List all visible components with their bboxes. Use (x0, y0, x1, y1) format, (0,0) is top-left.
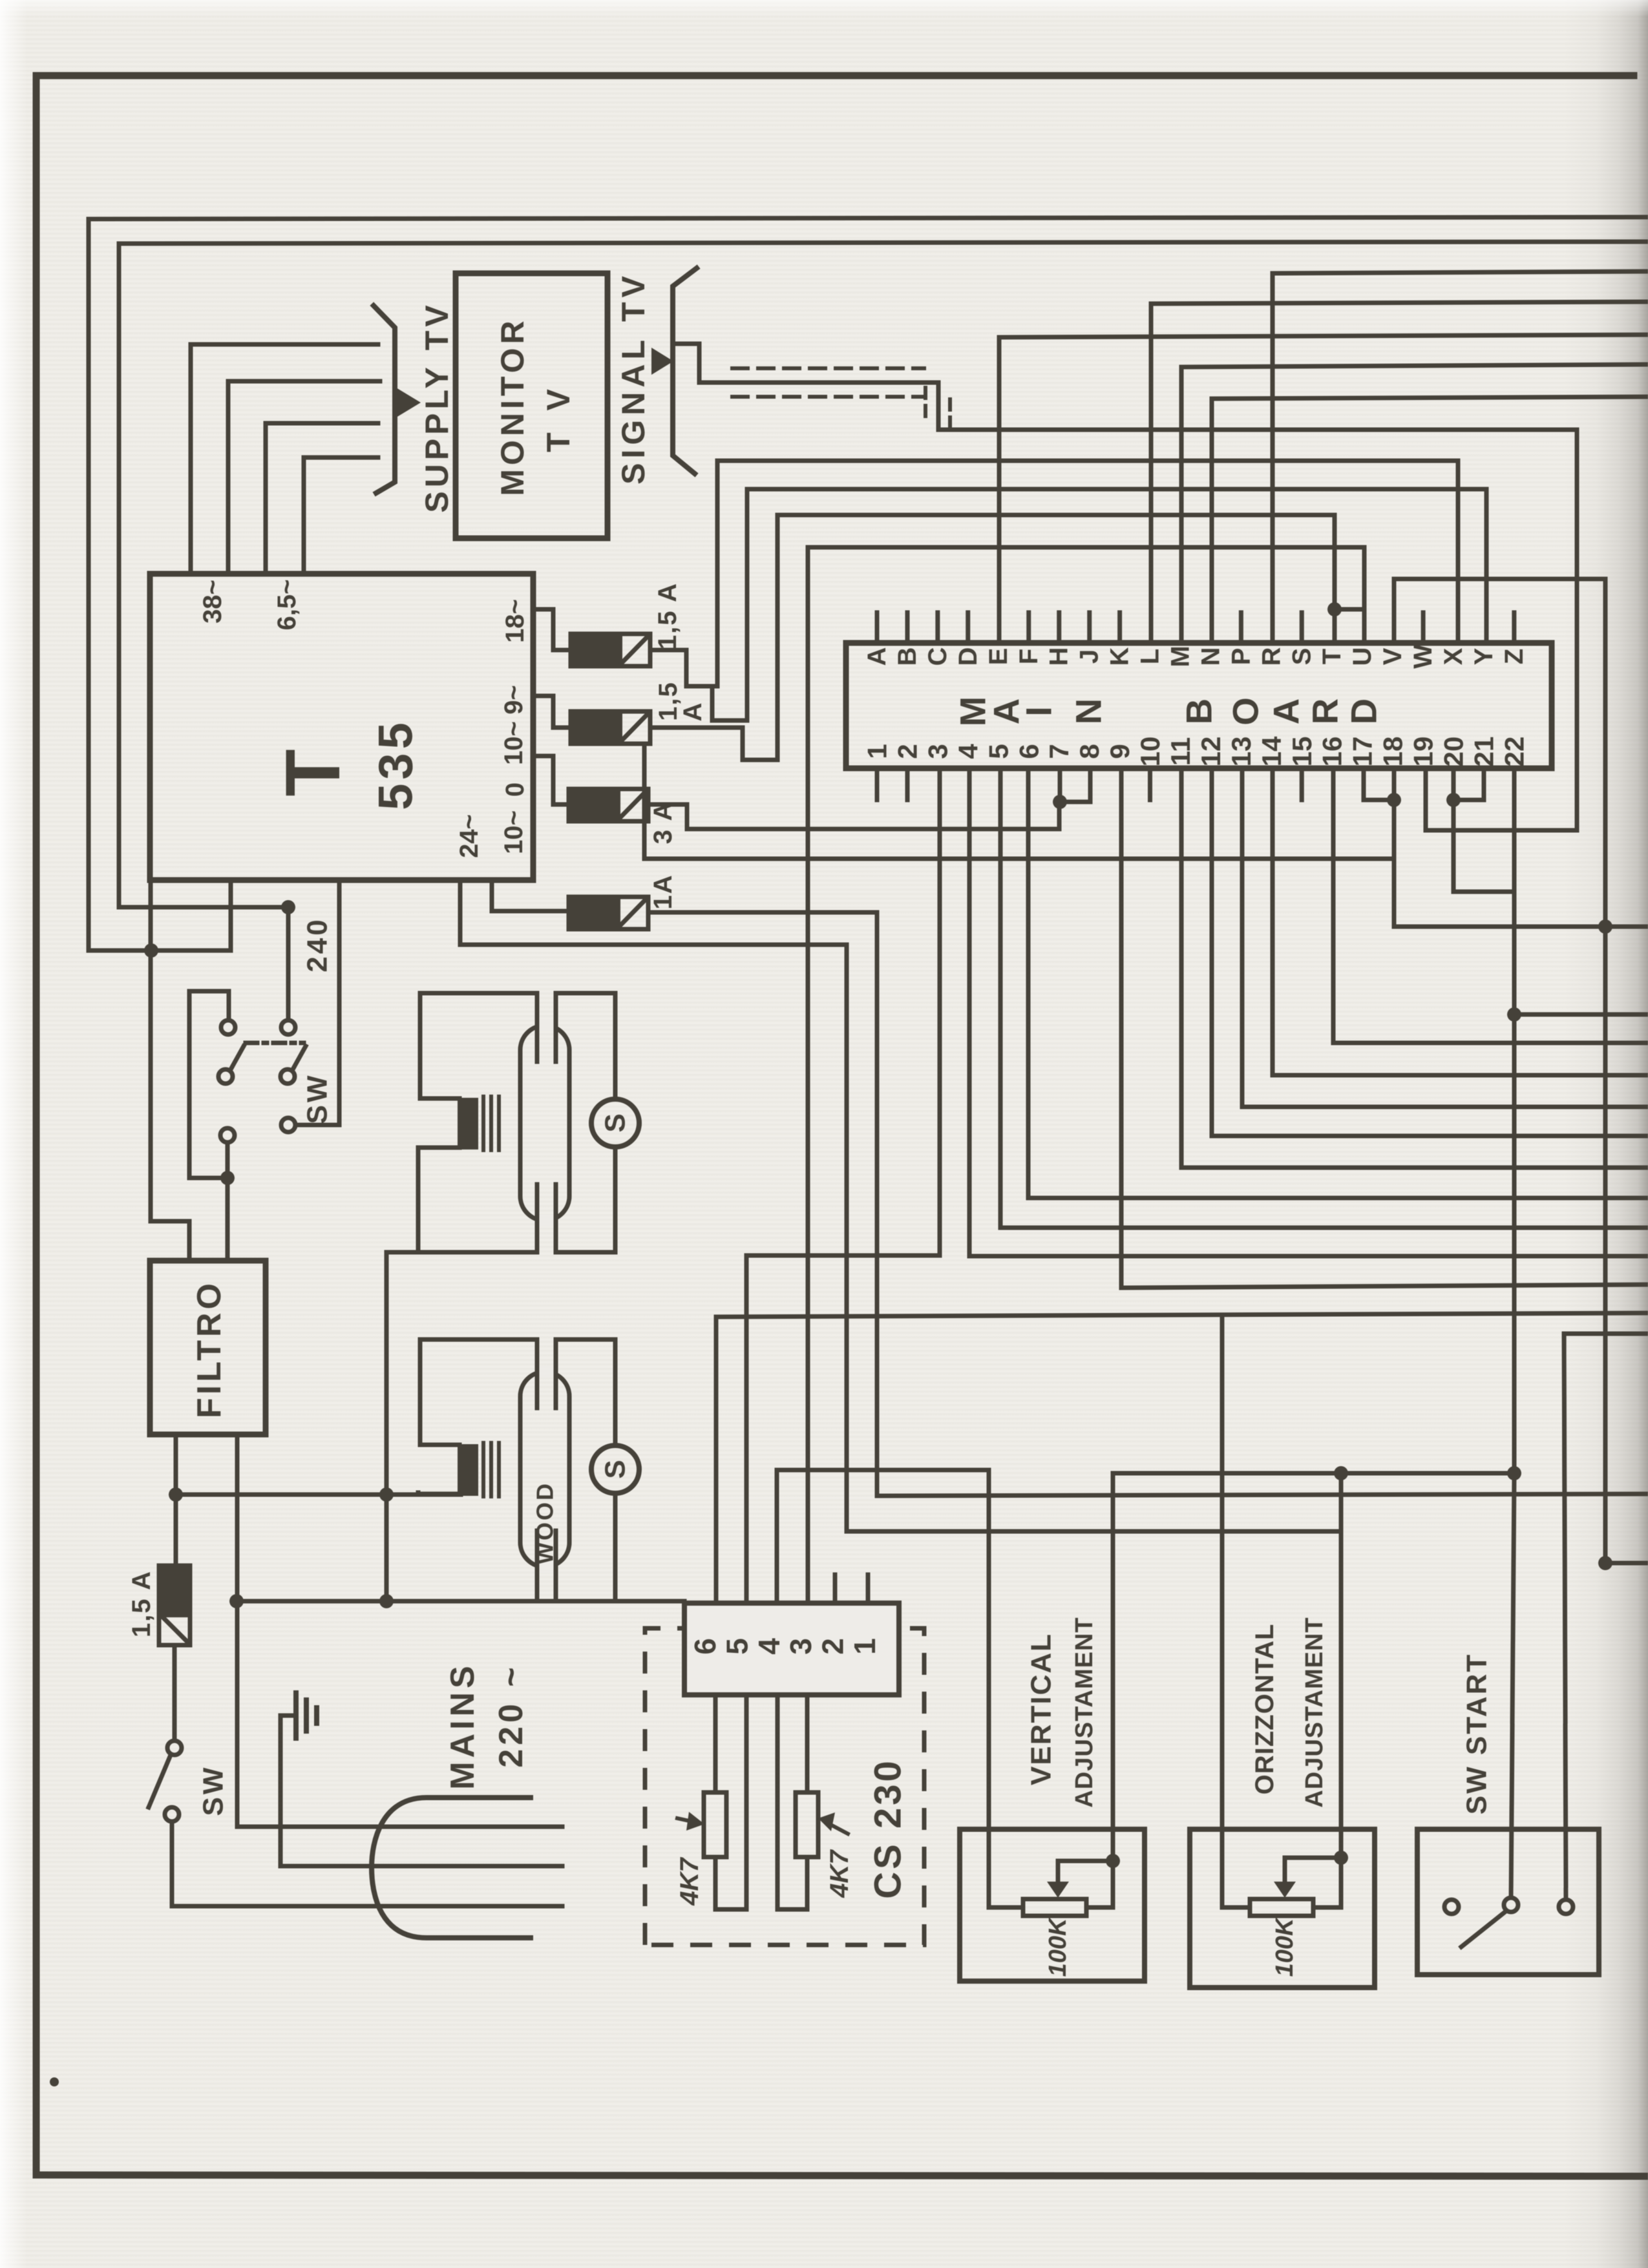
svg-text:3: 3 (784, 1638, 818, 1655)
potentiometer 100K orizz body (1250, 1899, 1313, 1916)
wire pin M up-right (1181, 364, 1648, 643)
svg-text:MONITOR: MONITOR (494, 317, 531, 496)
svg-text:14: 14 (1256, 736, 1287, 766)
pot 4K7 right wiper arrowhead (818, 1812, 835, 1831)
svg-text:M: M (1167, 646, 1195, 667)
wire F4 out to right edge (648, 912, 1648, 1496)
junction rail upper / lamp1 drop (379, 1487, 394, 1502)
svg-text:ADJUSTAMENT: ADJUSTAMENT (1301, 1617, 1328, 1807)
svg-text:18~: 18~ (501, 599, 529, 643)
svg-text:T: T (1318, 649, 1346, 664)
wire mains-B left vertical to SW (119, 244, 288, 907)
filter FILTRO box (150, 1261, 266, 1434)
svg-text:A: A (679, 703, 707, 722)
svg-text:6,5~: 6,5~ (273, 580, 301, 631)
sw start blade (1461, 1911, 1506, 1947)
lamp2 (WOOD) tube slot gap top (536, 1366, 557, 1378)
svg-text:ORIZZONTAL: ORIZZONTAL (1251, 1624, 1279, 1795)
lamp1 starter top wire (613, 993, 618, 1099)
svg-text:1: 1 (862, 744, 893, 759)
fuse F2 1,5A body (571, 711, 650, 744)
CS230 dashed enclosure (645, 1628, 924, 1945)
wire FILTRO out right (237, 1434, 562, 1827)
svg-text:6: 6 (688, 1638, 722, 1655)
mains plug outline (372, 1798, 533, 1938)
lamp2 (WOOD) electrode left bottom (535, 1531, 540, 1599)
svg-text:S: S (600, 1113, 631, 1132)
svg-text:3 A: 3 A (649, 801, 677, 845)
fuse F4 1A diagonal (619, 899, 646, 927)
lamp1 starter bottom wire (613, 1147, 618, 1252)
lamp1 magnet line 2 (489, 1097, 493, 1150)
svg-text:K: K (1106, 647, 1134, 666)
fuse F2 1,5A diagonal (621, 714, 648, 741)
wire lamp bottom rail (237, 1599, 684, 1604)
SW mains blade (149, 1755, 171, 1807)
wire pin L up-right (1151, 302, 1648, 643)
svg-text:S: S (1287, 648, 1316, 666)
wire pin 16 to right edge (1333, 768, 1648, 1043)
svg-text:100K: 100K (1044, 1916, 1072, 1977)
pin F stub (1026, 613, 1031, 643)
fuse F2 1,5A filled end (571, 711, 622, 744)
svg-text:4K7: 4K7 (825, 1849, 854, 1898)
lamp1 tube outline (520, 1025, 569, 1221)
lamp1 starter S (591, 1099, 639, 1147)
svg-text:24~: 24~ (455, 814, 483, 858)
monitor tv box (456, 273, 607, 538)
junction mains-A / transformer tap (144, 943, 158, 958)
svg-text:S: S (600, 1460, 631, 1478)
svg-text:18: 18 (1378, 737, 1408, 767)
svg-text:SW START: SW START (1461, 1653, 1493, 1815)
junction SW feed (281, 900, 295, 914)
pot 4K7 left wiper arrowhead (686, 1812, 704, 1831)
wire T-U jog (808, 547, 1364, 609)
junction adj common (1334, 1466, 1348, 1480)
wire pin 14 to right edge (1273, 768, 1648, 1075)
lamp1 electrode right (554, 993, 558, 1062)
wire pins 20-21 join (1453, 768, 1484, 800)
wire F1 branch to pin Y (712, 489, 1486, 720)
wire pin 9 to right edge (1121, 768, 1648, 1288)
signal shield dash corner a (924, 388, 927, 423)
lamp1 bottom wire left (386, 1250, 537, 1255)
pin 15 stub (1300, 768, 1304, 800)
wire 6,5~ a to supply tv (266, 423, 378, 574)
lamp1 tube slot gap top (536, 1020, 557, 1031)
svg-text:10~: 10~ (500, 721, 528, 765)
wire H_a drop to vert pot (989, 1470, 1023, 1907)
lamp2 (WOOD) left drop to choke (420, 1339, 460, 1445)
wire F2 branch down (644, 744, 1394, 859)
supply tv bracket (374, 306, 395, 493)
SW selector linkage dashed (246, 1041, 304, 1045)
wire pin U stub (1362, 609, 1367, 643)
svg-text:7: 7 (1044, 744, 1074, 759)
svg-text:19: 19 (1408, 737, 1439, 767)
junction filtro feed (220, 1171, 235, 1185)
scan ink speck (50, 2077, 59, 2086)
lamp1 electrode right bottom (554, 1184, 558, 1252)
vert wiper arrowhead (1047, 1882, 1069, 1898)
svg-text:220 ~: 220 ~ (492, 1663, 530, 1768)
svg-text:Z: Z (1500, 649, 1528, 664)
lamp1 choke out (418, 1148, 460, 1252)
wire 18~ to F1 (533, 609, 571, 650)
lamp2 (WOOD) magnet line 2 (489, 1443, 493, 1496)
svg-text:4: 4 (752, 1638, 786, 1655)
svg-text:535: 535 (369, 719, 423, 810)
wire 10~ to F3 (533, 756, 569, 804)
svg-text:10~: 10~ (500, 810, 528, 854)
wire F2 out to pin T (650, 515, 1335, 760)
junction pin T (1327, 602, 1342, 616)
wire plug middle prong / earth (280, 1716, 562, 1866)
wire Y2038 run to right edge (716, 1313, 1648, 1317)
wire to F4 (1A) (492, 880, 569, 911)
lamp2 (WOOD) starter S (591, 1445, 639, 1493)
wire to SW START right (1564, 1334, 1648, 1900)
SW selector contact TR (281, 1020, 295, 1034)
svg-text:R: R (1305, 698, 1346, 724)
wire orizz right drop (1339, 1473, 1344, 1858)
svg-text:F: F (1015, 649, 1043, 664)
junction FILTRO left / lamp rail (169, 1487, 183, 1502)
svg-text:1A: 1A (649, 874, 677, 909)
svg-text:8: 8 (1074, 744, 1104, 759)
pot 4K7 left wiper (677, 1818, 698, 1823)
pin J stub (1087, 613, 1092, 643)
wire Y2038 drop to orizz pot (1222, 1315, 1250, 1907)
svg-text:D: D (1344, 698, 1384, 724)
lamp2 (WOOD) tube slot gap bottom (536, 1561, 557, 1573)
lamp1 left drop to choke (420, 993, 460, 1098)
lamp2 (WOOD) magnet line 3 (497, 1443, 501, 1496)
lamp2 (WOOD) magnet line 1 (481, 1443, 485, 1496)
pin A stub (875, 613, 880, 643)
wire orizz wiper (1285, 1858, 1341, 1882)
border frame top edge (36, 72, 1634, 79)
pot 4K7 right wiper (826, 1822, 848, 1834)
svg-text:10: 10 (1135, 737, 1165, 767)
wire CS230 feed C (to J2 pin4) (775, 1470, 779, 1603)
junction pin22 corner (1507, 1466, 1521, 1480)
lamp2 (WOOD) electrode left (535, 1339, 540, 1408)
wire pin 5 to right edge (1000, 768, 1648, 1228)
wire pins 7-8 join (1060, 768, 1090, 802)
pin D stub (966, 613, 970, 643)
pin 2 stub (905, 768, 910, 800)
ground symbol bar1 (293, 1693, 299, 1738)
transformer T1 body (T 535) (150, 574, 533, 880)
lamp2 (WOOD) starter bottom wire (613, 1493, 618, 1599)
signal tv arrow (651, 348, 673, 375)
svg-text:4: 4 (953, 744, 983, 759)
junction orizz wiper (1334, 1851, 1348, 1865)
fuse F1 1,5A body (571, 634, 650, 666)
ground symbol bar2 (304, 1700, 309, 1731)
wire J2 pin1 stub (866, 1575, 871, 1603)
wire SW feed drop (286, 907, 291, 1020)
wire pot 4K7 right bottom (777, 1857, 807, 1909)
lamp1 tube slot gap bottom (536, 1215, 557, 1226)
fuse F5 diagonal (162, 1616, 187, 1642)
svg-text:15: 15 (1287, 737, 1317, 767)
fuse F3 3A body (569, 789, 648, 821)
SW selector blade left (231, 1046, 244, 1069)
lamp2 (WOOD) starter top wire (613, 1339, 618, 1445)
sw start box (1417, 1829, 1599, 1975)
lamp2 (WOOD) top wire left (420, 1338, 537, 1342)
svg-text:B: B (1179, 698, 1220, 724)
svg-text:Y: Y (1470, 647, 1498, 665)
wire pin 12 to right edge (1212, 768, 1648, 1136)
svg-text:240: 240 (302, 917, 333, 972)
wire J2 pin2 stub (833, 1575, 838, 1603)
wire mains-B top run to right edge (119, 242, 1648, 244)
sw start contact mid (1504, 1898, 1518, 1912)
wire J2 pin4 down (776, 1695, 780, 1909)
fuse F4 1A filled end (569, 897, 620, 929)
vertical adjustament box (960, 1829, 1145, 1981)
wire pin 22 exit right (1514, 1013, 1648, 1017)
svg-text:4K7: 4K7 (675, 1857, 704, 1906)
svg-text:5: 5 (720, 1638, 754, 1655)
wire pin 18 chain to right edge (1394, 768, 1648, 927)
svg-text:9~: 9~ (500, 685, 528, 715)
svg-text:0: 0 (501, 782, 529, 797)
wire pin N up-right (1212, 397, 1648, 643)
potentiometer 4K7 right body (796, 1792, 818, 1857)
svg-text:O: O (1225, 697, 1266, 726)
SW selector contact ML (218, 1069, 233, 1084)
SW selector contact MR (280, 1069, 295, 1084)
wire SW mains to plug (172, 1822, 562, 1906)
pin Z stub (1512, 613, 1516, 643)
svg-text:1,5 A: 1,5 A (653, 582, 682, 649)
pin P stub (1239, 613, 1243, 643)
fuse F5 filled end (159, 1566, 190, 1617)
svg-text:21: 21 (1469, 737, 1499, 767)
lamp2 (WOOD) electrode right (554, 1339, 558, 1408)
SW mains contact top (167, 1741, 182, 1755)
svg-text:D: D (954, 647, 982, 666)
fuse F3 3A filled end (569, 789, 620, 821)
connector J1 MAIN BOARD body (846, 643, 1552, 768)
svg-text:16: 16 (1317, 737, 1347, 767)
wire 240 to BR contact (297, 880, 339, 1125)
svg-text:R: R (1257, 647, 1285, 666)
wire mains-A top run to right edge (89, 217, 1648, 219)
wire lamp1 drop (385, 1252, 389, 1601)
svg-text:12: 12 (1196, 737, 1226, 767)
orizzontal adjustament box (1190, 1829, 1375, 1988)
SW selector contact TL (221, 1020, 235, 1034)
signal tv stub (675, 344, 1577, 830)
svg-text:2: 2 (893, 744, 923, 759)
wire mains-A left vertical (89, 219, 231, 950)
svg-text:A: A (863, 647, 891, 666)
wire F1 out to pin X (650, 461, 1458, 686)
svg-text:13: 13 (1226, 737, 1256, 767)
svg-text:A: A (1266, 698, 1307, 724)
svg-text:3: 3 (922, 744, 953, 759)
lamp2 (WOOD) electrode right bottom (554, 1531, 558, 1599)
lamp1 top wire right (556, 991, 615, 996)
svg-text:SW: SW (198, 1765, 229, 1816)
lamp2 (WOOD) top wire right (556, 1338, 615, 1342)
signal tv bracket (673, 268, 697, 474)
lamp1 choke coil (460, 1100, 476, 1148)
fuse F5 1,5A body (159, 1566, 190, 1645)
signal shield dash bottom (732, 395, 924, 399)
wire TL contact up (189, 991, 229, 1178)
svg-text:SIGNAL TV: SIGNAL TV (615, 271, 651, 485)
lamp1 top wire left (420, 991, 537, 996)
pin 1 stub (875, 768, 880, 800)
wire pin 11 to right edge (1181, 768, 1648, 1168)
junction V wire lower exit (1598, 1556, 1612, 1570)
SW mains contact bottom (165, 1807, 179, 1822)
ground symbol stem (280, 1714, 296, 1718)
junction vert wiper (1106, 1854, 1120, 1868)
fuse F4 1A body (569, 897, 648, 929)
pin B stub (905, 613, 910, 643)
svg-text:100K: 100K (1271, 1916, 1298, 1977)
wire 6,5~ b to supply tv (304, 457, 378, 574)
wire 38~ b to supply tv (228, 381, 380, 574)
svg-text:ADJUSTAMENT: ADJUSTAMENT (1071, 1617, 1098, 1807)
pin S stub (1300, 613, 1304, 643)
wire pin 3 chain to CS230 (746, 768, 940, 1603)
svg-text:MAINS: MAINS (444, 1662, 481, 1790)
wire CS230 feed A (to J2 pin6) (714, 1317, 719, 1603)
fuse F1 1,5A filled end (571, 634, 622, 666)
wire pin 13 to right edge (1242, 768, 1648, 1107)
pin K stub (1117, 613, 1122, 643)
wire pin R up-right (1273, 271, 1648, 643)
signal shield dash corner b (948, 399, 952, 426)
junction pins 17-18 (1387, 793, 1401, 807)
wire to SW START left (1511, 1473, 1514, 1898)
svg-text:N: N (1068, 698, 1109, 724)
lamp2 (WOOD) choke out (418, 1493, 460, 1494)
svg-text:38~: 38~ (198, 580, 227, 624)
potentiometer 100K vert body (1023, 1899, 1086, 1916)
SW selector contact BL (220, 1128, 235, 1142)
lamp1 electrode left (535, 993, 540, 1062)
wire pins 20-21 drop (1453, 800, 1514, 892)
svg-text:FILTRO: FILTRO (191, 1280, 228, 1418)
svg-text:5: 5 (983, 744, 1013, 759)
svg-text:I: I (1019, 706, 1059, 717)
wire orizz pot right (1313, 1858, 1341, 1907)
svg-text:SUPPLY TV: SUPPLY TV (419, 301, 455, 512)
svg-text:U: U (1348, 647, 1377, 666)
svg-text:VERTICAL: VERTICAL (1026, 1633, 1057, 1785)
svg-text:WOOD: WOOD (532, 1482, 558, 1564)
supply tv arrow (396, 388, 421, 417)
svg-text:9: 9 (1104, 744, 1135, 759)
svg-text:CS 230: CS 230 (867, 1758, 909, 1898)
svg-text:J: J (1075, 649, 1104, 664)
fuse F1 1,5A diagonal (621, 636, 648, 664)
wire FILTRO out left (174, 1434, 178, 1566)
connector J2 (6 pin) body (684, 1603, 899, 1695)
wire J2 pin5 down (745, 1695, 749, 1909)
wire pin 22 chain (1113, 768, 1514, 1473)
svg-text:17: 17 (1347, 737, 1378, 767)
junction pin22 exit (1507, 1007, 1521, 1022)
svg-text:22: 22 (1499, 737, 1529, 767)
ground symbol bar3 (314, 1708, 319, 1723)
signal shield dash top (732, 366, 924, 370)
lamp1 magnet line 3 (497, 1097, 501, 1150)
wire vert wiper (1058, 1861, 1113, 1882)
svg-text:W: W (1409, 644, 1437, 669)
svg-text:20: 20 (1439, 737, 1469, 767)
svg-text:SW: SW (302, 1073, 333, 1124)
svg-text:6: 6 (1013, 744, 1044, 759)
border frame bottom edge (36, 2175, 1648, 2176)
pin 10 stub (1148, 768, 1152, 800)
junction V wire at exit (1598, 919, 1612, 934)
lamp2 (WOOD) choke coil (460, 1446, 476, 1494)
svg-text:P: P (1227, 648, 1255, 666)
wire F3 out to pins 7-8 (648, 802, 1059, 829)
svg-text:2: 2 (816, 1638, 850, 1655)
wire vert pot right (1086, 1861, 1113, 1907)
fuse F3 3A diagonal (619, 792, 646, 819)
wire pin V chain (1394, 579, 1648, 1563)
svg-text:X: X (1439, 647, 1468, 665)
wire J2 pin3 to pot (805, 1695, 810, 1792)
pin W stub (1421, 613, 1426, 643)
wire lamp rail upper (176, 1493, 461, 1497)
potentiometer 4K7 left body (704, 1792, 726, 1857)
svg-text:C: C (924, 647, 952, 666)
sw start contact left (1444, 1900, 1459, 1914)
wire pot 4K7 left bottom (715, 1857, 746, 1909)
sw start contact right (1559, 1900, 1573, 1914)
pin C stub (935, 613, 940, 643)
wire 9~ to F2 (533, 696, 571, 728)
wire transformer tap to FILTRO (151, 880, 189, 1261)
wire pin E up-right (999, 335, 1648, 643)
wire 38~ a to supply tv (191, 344, 378, 574)
junction FILTRO right / lamp rail (229, 1594, 244, 1608)
junction pins 20-21 (1446, 793, 1461, 807)
svg-text:H: H (1045, 647, 1073, 666)
svg-text:1: 1 (848, 1638, 882, 1655)
lamp1 bottom wire right (556, 1250, 615, 1255)
wire H_a run (777, 1468, 989, 1473)
junction pins 7-8 (1053, 795, 1067, 809)
svg-text:N: N (1197, 647, 1225, 666)
wire pin 6 to right edge (1028, 768, 1648, 1198)
wire jog to FILTRO left (189, 1176, 227, 1181)
wire F5 to SW contact (173, 1645, 177, 1741)
svg-text:B: B (893, 647, 922, 666)
border frame left edge (33, 76, 40, 2175)
wire pin 4 to right edge (969, 768, 1648, 1256)
wire J2 pin6 to pot (713, 1695, 718, 1792)
lamp2 (WOOD) tube outline (520, 1372, 569, 1567)
wire pins 17-18 join (1364, 768, 1394, 800)
wire fuse bus down to CS230 pin3 (806, 547, 810, 1603)
pin H stub (1057, 613, 1061, 643)
